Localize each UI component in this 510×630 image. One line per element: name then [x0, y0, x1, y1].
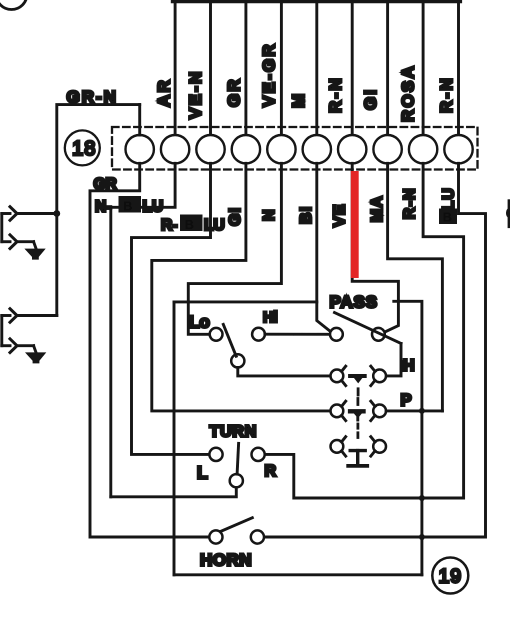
- top bus rail: [173, 0, 461, 3]
- label H: [402, 359, 410, 373]
- circled 18: [65, 130, 100, 165]
- wire AR: [174, 1, 177, 135]
- terminal circle 4: [232, 135, 260, 163]
- HORN right contact: [251, 530, 264, 543]
- left pin 2: [2, 235, 36, 249]
- terminal circle 1: [126, 135, 154, 163]
- TURN R contact: [252, 448, 265, 461]
- svg-text:N-: N-: [95, 199, 111, 216]
- wire PASS to H node: [386, 343, 401, 376]
- wire MA: [388, 163, 443, 411]
- wire R-BLU: [132, 163, 211, 454]
- svg-text:R: R: [265, 463, 277, 480]
- wire GR (down): [90, 163, 209, 537]
- svg-text:HORN: HORN: [200, 551, 252, 570]
- svg-text:GR: GR: [225, 77, 244, 107]
- wire VE (down): [352, 163, 398, 332]
- svg-text:M: M: [289, 92, 308, 108]
- svg-text:GI: GI: [361, 88, 380, 110]
- wire dimmer common to H contact: [238, 368, 331, 376]
- key symbol row1 (arrow down): [350, 376, 365, 383]
- bullet contact row3 right: [371, 437, 386, 456]
- svg-text:MA: MA: [369, 195, 386, 222]
- svg-text:N: N: [261, 208, 278, 221]
- dimmer arm: [223, 324, 236, 356]
- svg-text:VE-GR: VE-GR: [260, 42, 279, 107]
- svg-text:VE-N: VE-N: [186, 70, 205, 119]
- terminal circle 2: [161, 135, 189, 163]
- wire GI (top): [386, 1, 389, 135]
- svg-text:L: L: [197, 463, 208, 483]
- wire BLU: [264, 163, 485, 537]
- terminal circle 10: [444, 135, 472, 163]
- wire R-N (top, 10): [457, 1, 460, 135]
- red highlight wire VE: [351, 171, 359, 278]
- key symbol row2 (arrow down): [350, 411, 363, 420]
- wire R-N (top, 7): [351, 1, 354, 135]
- svg-text:LU: LU: [204, 217, 225, 234]
- key symbol row3 (I beam): [348, 451, 367, 466]
- PASS right contact: [372, 328, 385, 341]
- dimmer Lo contact: [210, 328, 223, 341]
- left pin 1: [2, 207, 57, 221]
- wire N (down): [188, 163, 281, 334]
- wire TURN common: [111, 487, 237, 496]
- partial circle top-left: [0, 0, 27, 10]
- junction blob horn/right edge: [419, 534, 425, 540]
- PASS left contact: [330, 328, 343, 341]
- stub circle1 top: [138, 105, 141, 135]
- connector separation dashed line: [356, 389, 359, 438]
- svg-text:B: B: [123, 199, 132, 214]
- svg-text:19: 19: [438, 566, 462, 588]
- wire GR (top): [244, 1, 247, 135]
- svg-text:BI: BI: [298, 206, 315, 224]
- svg-text:GR: GR: [94, 176, 117, 193]
- switch enclosure left edge: [173, 302, 176, 575]
- svg-text:R-N: R-N: [326, 76, 345, 113]
- svg-text:R-N: R-N: [402, 187, 419, 219]
- bullet contact P left: [331, 401, 346, 420]
- wire N-BLU: [111, 163, 175, 497]
- HORN left contact: [209, 530, 222, 543]
- wire ROSA: [422, 1, 425, 135]
- svg-text:GR-N: GR-N: [67, 88, 118, 107]
- wire Hi to PASS left: [265, 333, 330, 336]
- wire VE-GR: [280, 1, 283, 135]
- terminal circle 5: [267, 135, 295, 163]
- svg-text:GI: GI: [227, 207, 244, 226]
- dimmer Hi contact: [252, 328, 265, 341]
- terminal circle 8: [373, 135, 401, 163]
- HORN arm: [221, 518, 253, 532]
- svg-text:R-N: R-N: [437, 76, 456, 113]
- junction blob turn-R/right edge: [419, 495, 425, 501]
- wire BI (down): [317, 163, 331, 331]
- dimmer common contact: [231, 354, 244, 367]
- terminal circle 3: [196, 135, 224, 163]
- junction dot GR-N / pin1: [53, 210, 60, 217]
- svg-text:AR: AR: [155, 78, 174, 107]
- svg-text:H: H: [403, 358, 415, 375]
- terminal circle 9: [409, 135, 437, 163]
- wire M: [315, 1, 318, 135]
- wire BI branch to left edge: [174, 300, 317, 303]
- wire GR-N: [57, 105, 140, 316]
- svg-text:LU: LU: [143, 199, 164, 216]
- wire P right to MA: [386, 409, 442, 412]
- circled 19: [432, 558, 468, 594]
- terminal circle 6: [303, 135, 331, 163]
- wire R-N (down): [265, 163, 464, 498]
- ground symbol pin 4: [25, 352, 46, 363]
- bullet contact H left: [331, 366, 346, 385]
- left pin 4: [2, 339, 36, 353]
- svg-text:PASS: PASS: [330, 293, 378, 312]
- TURN common contact: [230, 474, 243, 487]
- partial circled number right edge: [506, 201, 510, 227]
- connector 18 dashed outline: [112, 127, 478, 170]
- svg-text:ROSA: ROSA: [399, 64, 418, 122]
- switch enclosure right edge: [394, 301, 422, 575]
- svg-text:Hi: Hi: [263, 310, 278, 326]
- svg-text:VE: VE: [332, 203, 349, 227]
- bullet contact H right: [371, 366, 386, 385]
- svg-text:R-: R-: [161, 217, 177, 234]
- left pin bracket 3-4: [0, 316, 3, 346]
- svg-text:B: B: [443, 210, 452, 225]
- bullet contact row3 left: [331, 437, 346, 456]
- TURN L contact: [209, 448, 222, 461]
- svg-text:TURN: TURN: [210, 424, 258, 441]
- svg-text:18: 18: [72, 138, 96, 160]
- TURN arm: [237, 443, 239, 474]
- bullet contact P right: [371, 401, 386, 420]
- wire VE-N: [209, 1, 212, 135]
- svg-text:P: P: [401, 392, 412, 410]
- junction blob P/right edge: [419, 408, 425, 414]
- svg-text:Lo: Lo: [189, 313, 210, 332]
- left pin bracket 1-2: [0, 214, 3, 242]
- left pin 3: [2, 309, 57, 323]
- svg-text:B: B: [185, 217, 194, 232]
- PASS arm: [335, 313, 402, 344]
- switch enclosure bottom: [174, 573, 422, 576]
- ground symbol pin 2: [24, 249, 45, 260]
- wire GI (down): [152, 163, 331, 411]
- terminal circle 7: [338, 135, 366, 163]
